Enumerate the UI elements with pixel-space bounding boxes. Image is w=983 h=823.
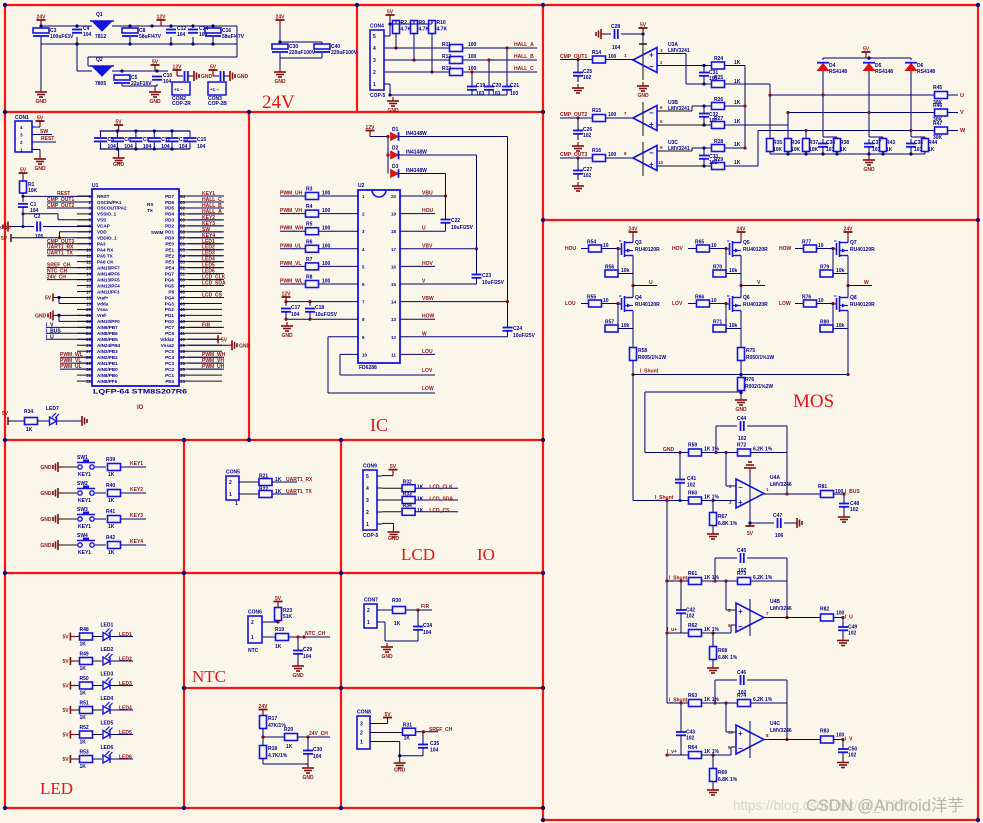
svg-text:VDD: VDD xyxy=(97,230,107,235)
resistor R59 xyxy=(689,449,702,456)
capacitor C12 xyxy=(166,26,186,38)
svg-text:Q8: Q8 xyxy=(850,295,857,301)
wire xyxy=(319,265,358,267)
wire xyxy=(285,312,287,318)
svg-text:R36: R36 xyxy=(791,140,800,146)
svg-text:1: 1 xyxy=(235,501,238,507)
svg-text:GND: GND xyxy=(34,166,46,172)
resistor R63 xyxy=(689,700,702,707)
svg-text:19: 19 xyxy=(391,212,397,217)
svg-text:R53: R53 xyxy=(80,749,89,755)
wire xyxy=(710,303,726,305)
capacitor xyxy=(675,480,685,483)
pin stub xyxy=(77,356,92,358)
wire xyxy=(93,709,103,711)
wire xyxy=(764,493,820,495)
junction xyxy=(150,24,153,27)
wire xyxy=(100,131,102,137)
capacitor C5 xyxy=(114,75,152,87)
capacitor xyxy=(305,309,315,312)
svg-text:LED4: LED4 xyxy=(119,706,132,712)
pin stub xyxy=(179,338,222,340)
resistor R72 xyxy=(738,449,751,456)
svg-text:R050/1%1W: R050/1%1W xyxy=(746,355,774,361)
wire xyxy=(121,518,146,520)
resistor R82 xyxy=(821,614,834,621)
wire xyxy=(382,511,402,513)
junction xyxy=(711,753,714,756)
wire xyxy=(769,95,771,136)
wire xyxy=(924,137,926,139)
wire xyxy=(60,368,92,370)
capacitor xyxy=(573,171,583,174)
svg-text:C30: C30 xyxy=(313,747,322,753)
svg-text:5: 5 xyxy=(373,34,376,40)
resistor R49 xyxy=(80,658,93,665)
svg-text:1K: 1K xyxy=(286,744,293,750)
pin stub xyxy=(77,231,92,233)
svg-text:R81: R81 xyxy=(818,484,827,490)
wire xyxy=(415,499,458,501)
op-amp U3C xyxy=(633,146,657,171)
wire xyxy=(22,196,24,202)
wire xyxy=(476,278,478,284)
svg-text:10uF/25V: 10uF/25V xyxy=(482,280,505,286)
resistor R4 xyxy=(306,210,319,217)
pin stub xyxy=(179,261,222,263)
junction xyxy=(21,212,24,215)
svg-text:RU40120R: RU40120R xyxy=(635,247,660,253)
svg-text:6.8K 1%: 6.8K 1% xyxy=(718,655,738,661)
svg-text:C29: C29 xyxy=(303,647,312,653)
svg-text:10K: 10K xyxy=(28,188,38,194)
svg-text:R82: R82 xyxy=(820,607,829,613)
pin stub xyxy=(179,320,222,322)
wire xyxy=(842,618,844,627)
svg-text:SW4: SW4 xyxy=(77,533,88,539)
capacitor C6 xyxy=(111,137,133,150)
svg-text:R7: R7 xyxy=(306,257,313,263)
wire xyxy=(726,273,741,275)
svg-text:103: 103 xyxy=(492,91,501,97)
pin stub xyxy=(179,356,222,358)
svg-text:R16: R16 xyxy=(592,148,601,154)
wire xyxy=(286,318,358,320)
wire xyxy=(704,65,711,67)
wire xyxy=(384,59,450,61)
capacitor xyxy=(37,222,40,232)
wire xyxy=(413,21,415,24)
wire xyxy=(868,58,870,60)
wire xyxy=(703,148,705,155)
resistor R33 xyxy=(402,497,415,504)
svg-text:I_U: I_U xyxy=(845,615,853,621)
transistor Q2 xyxy=(90,57,114,87)
svg-text:24V_CH: 24V_CH xyxy=(47,275,66,281)
svg-text:Q7: Q7 xyxy=(850,240,857,246)
svg-text:AIN1/PB1: AIN1/PB1 xyxy=(97,361,118,366)
junction xyxy=(128,24,131,27)
svg-text:Q2: Q2 xyxy=(96,57,103,63)
svg-text:R3: R3 xyxy=(306,187,313,193)
wire xyxy=(730,747,732,755)
wire xyxy=(750,522,774,524)
svg-text:GND: GND xyxy=(387,108,399,114)
wire xyxy=(715,679,737,681)
svg-text:C41: C41 xyxy=(687,476,696,482)
wire xyxy=(715,426,717,453)
wire xyxy=(384,35,390,37)
wire xyxy=(910,71,912,137)
pin stub xyxy=(77,332,92,334)
border junction xyxy=(182,438,186,442)
wire xyxy=(327,337,329,393)
svg-text:LED3: LED3 xyxy=(119,681,132,687)
svg-text:R8: R8 xyxy=(306,275,313,281)
junction xyxy=(739,373,742,376)
wire xyxy=(692,105,711,107)
wire xyxy=(834,493,844,495)
capacitor xyxy=(615,29,618,39)
svg-text:CON1: CON1 xyxy=(15,115,29,121)
wire xyxy=(842,753,844,759)
wire xyxy=(686,83,711,85)
svg-text:R68: R68 xyxy=(718,648,727,654)
svg-text:I_V: I_V xyxy=(845,737,853,743)
wire xyxy=(11,237,92,239)
junction xyxy=(576,156,579,159)
svg-text:GND: GND xyxy=(40,517,52,523)
svg-text:+: + xyxy=(649,120,654,129)
svg-text:R63: R63 xyxy=(688,693,697,699)
ground xyxy=(837,759,849,768)
svg-text:58uF/47V: 58uF/47V xyxy=(139,34,162,40)
wire xyxy=(688,248,697,250)
wire xyxy=(76,734,80,736)
resistor R56 xyxy=(605,270,618,277)
svg-text:R25: R25 xyxy=(714,75,723,81)
junction xyxy=(128,42,131,45)
wire xyxy=(192,26,194,28)
pin stub xyxy=(179,326,222,328)
svg-text:10uF/25V: 10uF/25V xyxy=(513,333,536,339)
wire xyxy=(843,494,845,503)
wire xyxy=(606,157,633,159)
border junction xyxy=(541,3,545,7)
capacitor xyxy=(778,518,781,528)
wire xyxy=(88,56,237,58)
wire xyxy=(60,231,93,233)
section border xyxy=(543,219,978,221)
resistor R36 xyxy=(785,139,792,152)
wire xyxy=(400,230,446,232)
svg-text:10: 10 xyxy=(362,352,368,357)
mcu U1 xyxy=(92,189,179,386)
svg-text:102: 102 xyxy=(583,75,592,81)
wire xyxy=(285,302,287,303)
section border xyxy=(5,4,978,6)
wire xyxy=(679,483,681,501)
ground xyxy=(53,514,62,524)
wire xyxy=(47,201,92,203)
svg-text:1: 1 xyxy=(366,522,369,528)
wire xyxy=(46,326,92,328)
ground xyxy=(637,82,649,91)
wire xyxy=(321,42,323,44)
pin stub xyxy=(77,261,92,263)
svg-text:GND: GND xyxy=(394,768,406,774)
wire xyxy=(657,124,711,126)
svg-text:R10: R10 xyxy=(437,20,446,26)
svg-text:RS4148: RS4148 xyxy=(875,69,893,75)
svg-text:RU40120R: RU40120R xyxy=(850,302,875,308)
wire xyxy=(924,152,926,155)
wire xyxy=(188,201,224,203)
wire xyxy=(395,21,397,24)
svg-text:5V: 5V xyxy=(747,531,754,537)
svg-text:W: W xyxy=(422,331,427,337)
wire xyxy=(713,632,731,634)
junction xyxy=(714,451,717,454)
resistor R46 xyxy=(935,109,948,116)
wire xyxy=(224,75,226,77)
wire xyxy=(833,273,848,275)
power 5V xyxy=(45,293,53,301)
svg-text:KEY1: KEY1 xyxy=(78,498,91,504)
wire xyxy=(667,702,688,704)
resistor R48 xyxy=(80,633,93,640)
svg-text:R83: R83 xyxy=(820,729,829,735)
wire xyxy=(389,84,391,95)
border junction xyxy=(3,110,7,114)
wire xyxy=(822,71,824,137)
svg-text:PG6: PG6 xyxy=(165,277,175,282)
wire xyxy=(280,230,305,232)
svg-text:R76: R76 xyxy=(802,295,811,301)
junction xyxy=(308,318,311,321)
svg-text:R77: R77 xyxy=(802,240,811,246)
wire xyxy=(910,139,912,143)
wire xyxy=(328,336,358,338)
junction xyxy=(422,730,425,733)
capacitor xyxy=(699,156,709,159)
junction xyxy=(702,82,705,85)
svg-text:Q4: Q4 xyxy=(635,295,642,301)
junction xyxy=(261,735,264,738)
svg-text:AIN9/PB7: AIN9/PB7 xyxy=(97,325,118,330)
junction xyxy=(616,247,619,250)
wire xyxy=(606,59,633,61)
capacitor xyxy=(484,87,494,90)
border junction xyxy=(339,686,343,690)
border junction xyxy=(247,110,251,114)
svg-text:LED5: LED5 xyxy=(101,720,114,726)
svg-text:4: 4 xyxy=(366,486,369,492)
wire xyxy=(111,685,134,687)
op-amp U3B xyxy=(633,106,657,131)
junction xyxy=(386,153,389,156)
ground xyxy=(387,97,399,106)
power 5V xyxy=(209,65,218,77)
svg-text:R12: R12 xyxy=(442,54,451,60)
svg-text:LMV3246: LMV3246 xyxy=(770,482,792,488)
resistor R1 xyxy=(20,181,27,193)
wire xyxy=(93,758,103,760)
wire xyxy=(153,131,155,137)
wire xyxy=(702,702,737,704)
wire xyxy=(832,249,834,271)
svg-text:10K: 10K xyxy=(773,147,783,153)
wire xyxy=(462,71,537,73)
wire xyxy=(59,302,92,304)
resistor R61 xyxy=(689,578,702,585)
svg-text:C23: C23 xyxy=(482,273,491,279)
capacitor xyxy=(413,627,423,630)
wire xyxy=(751,580,787,582)
pin stub xyxy=(179,380,222,382)
border junction xyxy=(976,3,980,7)
wire xyxy=(703,159,705,166)
svg-text:PE0: PE0 xyxy=(165,242,174,247)
wire xyxy=(188,231,224,233)
capacitor xyxy=(573,131,583,134)
svg-text:R40: R40 xyxy=(106,483,115,489)
wire xyxy=(805,152,807,155)
wire xyxy=(471,72,473,86)
power 5V xyxy=(36,116,45,128)
svg-text:R74: R74 xyxy=(737,693,746,699)
pin stub xyxy=(77,374,92,376)
svg-text:I_U: I_U xyxy=(46,334,54,340)
wire xyxy=(822,139,824,143)
svg-text:GND: GND xyxy=(201,74,213,80)
svg-text:PWM_UL: PWM_UL xyxy=(60,364,82,370)
svg-text:GND: GND xyxy=(149,99,161,105)
svg-text:PE1: PE1 xyxy=(165,248,174,253)
resistor R34 xyxy=(402,508,415,515)
wire xyxy=(632,258,634,286)
svg-text:R79: R79 xyxy=(820,265,829,271)
svg-text:1K: 1K xyxy=(734,160,741,166)
wire xyxy=(62,492,77,494)
svg-text:1K: 1K xyxy=(80,642,87,648)
svg-text:U2: U2 xyxy=(358,183,365,189)
wire xyxy=(507,302,509,327)
resistor R16 xyxy=(593,155,606,162)
svg-text:1K: 1K xyxy=(417,485,424,491)
svg-text:C17: C17 xyxy=(291,305,300,311)
svg-text:1: 1 xyxy=(360,740,363,746)
svg-text:AIN2/PB2: AIN2/PB2 xyxy=(97,355,118,360)
svg-text:CMP_OUT2: CMP_OUT2 xyxy=(560,112,587,118)
svg-text:RX: RX xyxy=(147,202,154,207)
svg-text:5V: 5V xyxy=(63,757,70,763)
wire xyxy=(328,392,435,394)
resistor R39 xyxy=(108,464,121,471)
connector CON5 xyxy=(226,470,244,501)
svg-text:R15: R15 xyxy=(592,108,601,114)
svg-text:10: 10 xyxy=(728,730,734,735)
wire xyxy=(339,354,341,375)
resistor R27 xyxy=(712,122,725,129)
wire xyxy=(93,734,103,736)
pin stub xyxy=(179,368,222,370)
resistor R2 xyxy=(393,21,400,34)
wire xyxy=(188,273,224,275)
svg-text:UART1_TX: UART1_TX xyxy=(47,251,74,257)
junction xyxy=(57,314,60,317)
ground xyxy=(838,513,850,522)
svg-text:1K: 1K xyxy=(417,508,424,514)
resistor R17 xyxy=(260,716,267,729)
svg-text:R4: R4 xyxy=(306,204,313,210)
junction xyxy=(909,129,912,132)
wire xyxy=(244,493,259,495)
wire xyxy=(100,148,190,150)
svg-text:1K: 1K xyxy=(734,142,741,148)
wire xyxy=(382,499,402,501)
diode D3 xyxy=(391,169,399,178)
svg-text:LOU: LOU xyxy=(565,301,576,307)
wire xyxy=(188,243,224,245)
power 24V xyxy=(276,15,286,27)
wire xyxy=(154,86,156,88)
border junction xyxy=(3,806,7,810)
wire xyxy=(400,213,435,215)
svg-text:C2: C2 xyxy=(34,214,41,220)
svg-text:LCD_CS: LCD_CS xyxy=(429,508,450,514)
svg-text:RS4148: RS4148 xyxy=(917,69,935,75)
svg-text:104: 104 xyxy=(313,754,322,760)
svg-text:1K: 1K xyxy=(275,477,282,483)
wire xyxy=(188,207,224,209)
svg-text:R002/1%2W: R002/1%2W xyxy=(745,384,773,390)
wire xyxy=(112,25,237,27)
junction xyxy=(841,616,844,619)
border junction xyxy=(976,818,980,822)
wire xyxy=(805,131,807,137)
resistor R26 xyxy=(712,103,725,110)
junction xyxy=(804,129,807,132)
svg-text:5V: 5V xyxy=(2,411,9,417)
junction xyxy=(284,300,287,303)
junction xyxy=(505,46,508,49)
svg-text:RU40120R: RU40120R xyxy=(635,302,660,308)
svg-text:5: 5 xyxy=(366,474,369,480)
svg-text:100: 100 xyxy=(608,112,617,118)
resistor R34 xyxy=(25,418,38,425)
wire xyxy=(47,279,92,281)
resistor R70 xyxy=(713,270,726,277)
svg-text:Vref-: Vref- xyxy=(97,313,108,318)
wire xyxy=(399,756,401,759)
border junction xyxy=(182,571,186,575)
svg-text:−: − xyxy=(738,622,743,631)
svg-text:VBV: VBV xyxy=(422,243,433,249)
wire xyxy=(788,112,934,114)
svg-text:GND: GND xyxy=(239,343,251,349)
mosfet Q6 xyxy=(726,295,741,314)
wire xyxy=(731,624,736,626)
wire xyxy=(280,248,305,250)
svg-text:3: 3 xyxy=(366,498,369,504)
resistor R21 xyxy=(259,479,272,486)
wire xyxy=(170,37,172,44)
svg-text:100: 100 xyxy=(468,54,477,60)
junction xyxy=(386,135,389,138)
resistor R7 xyxy=(306,263,319,270)
power 12V xyxy=(366,125,376,137)
